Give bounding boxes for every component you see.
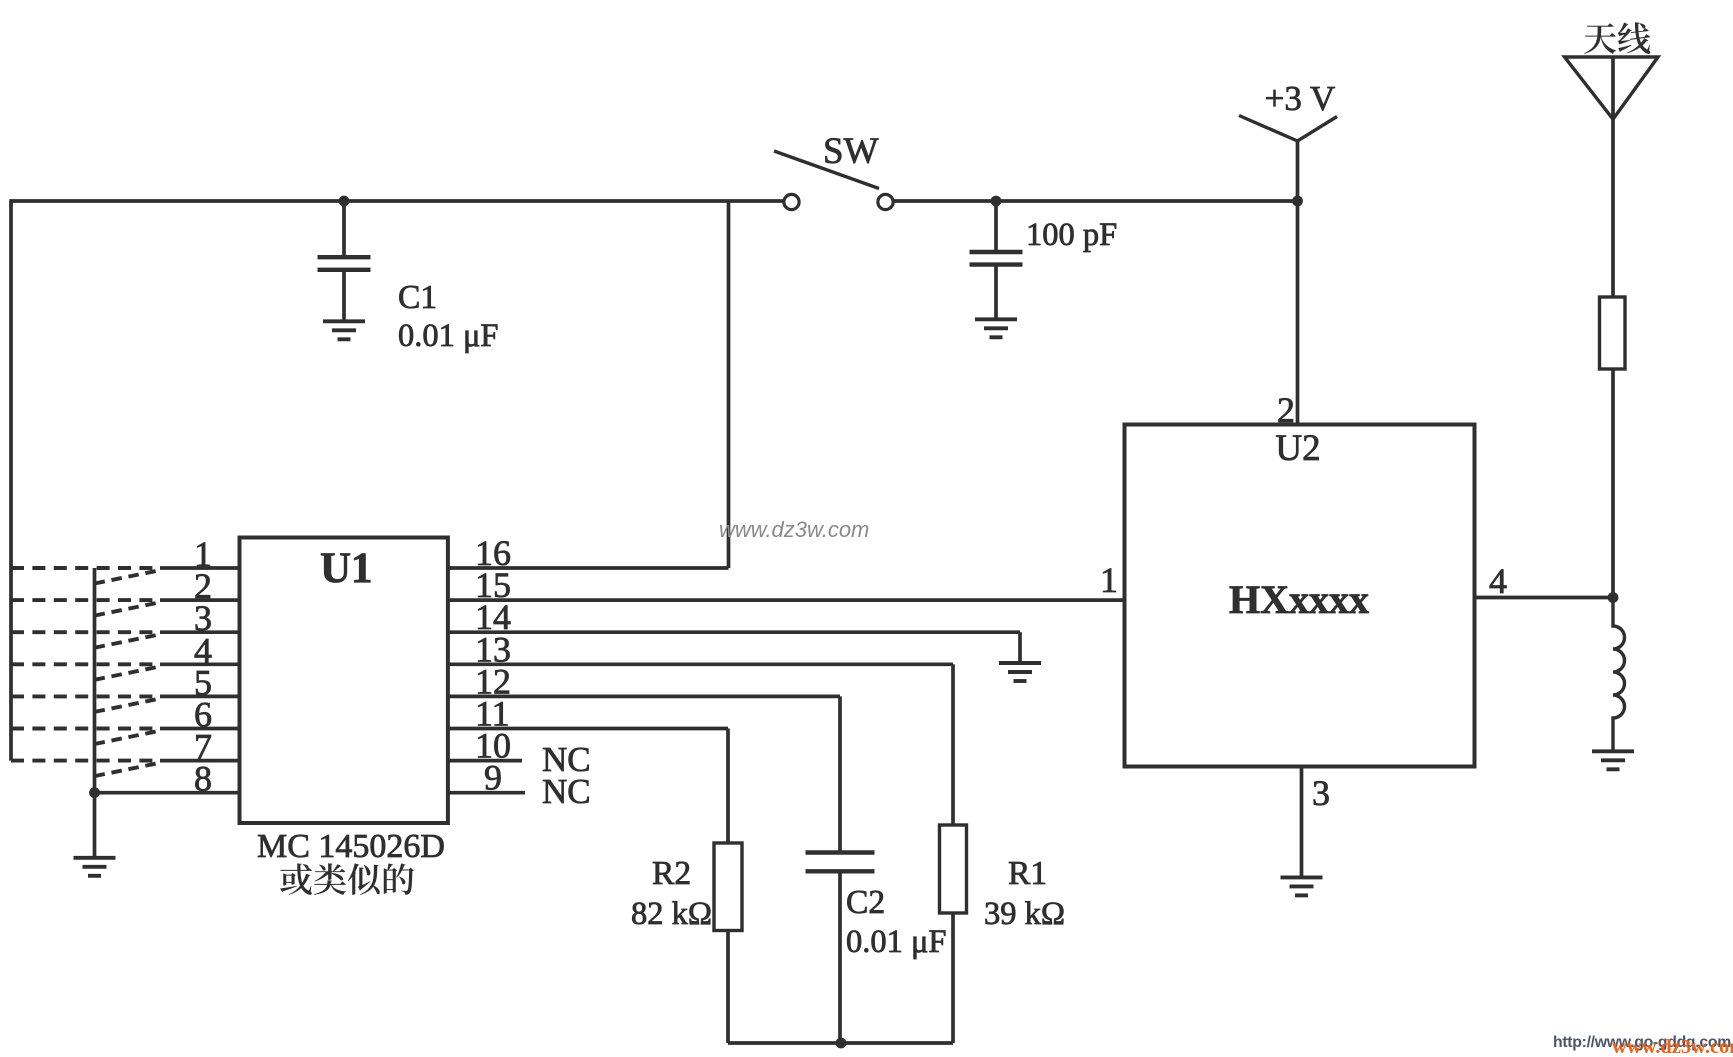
wire: 100pF bottom lead [994, 266, 998, 318]
svg-text:39 kΩ: 39 kΩ [984, 896, 1065, 932]
DIP switch blade for pin 7 (dashed diagonal) [95, 764, 157, 777]
svg-text:9: 9 [484, 758, 502, 798]
wire: top rail left section (VDD bus from left bus to SW) [9, 199, 783, 203]
wire: U2 pin 4 to antenna node [1475, 596, 1614, 600]
wire: R1 bottom lead to rail [951, 913, 955, 1043]
svg-text:MC 145026D: MC 145026D [257, 828, 445, 865]
wire: pin 13 down to R1 [951, 664, 955, 825]
svg-text:4: 4 [1489, 561, 1507, 601]
DIP switch blade for pin 1 (dashed diagonal) [95, 571, 157, 584]
wire: U1 pin 8 lead from ground bus [95, 791, 240, 795]
wire: pin 12 down to C2 [838, 696, 842, 851]
svg-text:C1: C1 [398, 279, 437, 316]
wire: 100pF top lead [994, 201, 998, 251]
power supply +3V symbol [1239, 116, 1337, 142]
label: antenna (Chinese tianxian) [1584, 23, 1616, 54]
wire: U1 pin 10 stub (NC) [448, 759, 522, 763]
wire: U1 pin 15 to U2 pin 1 [448, 598, 1125, 602]
node: junction pin 4 / antenna / inductor [1608, 592, 1619, 603]
svg-text:3: 3 [1312, 773, 1330, 813]
wire: dashed line to DIP switch, pin 5 [11, 694, 157, 698]
wire: +3V down to U2 pin 2 [1296, 141, 1300, 425]
wire: U1 pin 14 horizontal [448, 630, 1020, 634]
wire: U1 pin 13 horizontal [448, 662, 953, 666]
wire: dashed line to DIP switch, pin 3 [11, 630, 157, 634]
inductor (RF choke to ground) [1613, 598, 1625, 750]
svg-text:www.dz3w.com: www.dz3w.com [1612, 1036, 1733, 1057]
wire: U1 pin 7 lead [160, 759, 240, 763]
DIP switch blade for pin 4 (dashed diagonal) [95, 667, 157, 680]
wire: pin 11 down to R2 [726, 729, 730, 844]
ground below 100pF cap [975, 319, 1017, 337]
svg-text:82 kΩ: 82 kΩ [631, 896, 712, 932]
node: junction pin-8 / switch bus [89, 787, 100, 798]
svg-text:C2: C2 [846, 884, 885, 921]
ground at U1 pin 14 [999, 663, 1041, 681]
capacitor C1 0.01uF [318, 257, 371, 270]
svg-text:0.01 μF: 0.01 μF [846, 924, 947, 960]
svg-text:2: 2 [1277, 390, 1295, 430]
ground below C1 [323, 321, 365, 339]
node: junction top rail / C1 [339, 196, 350, 207]
wire: far-left vertical bus [9, 201, 13, 761]
wire: U1 pin 4 lead [160, 662, 240, 666]
resistor R2 82k body [714, 843, 742, 931]
resistor (antenna series, unlabeled) body [1600, 297, 1626, 369]
svg-text:SW: SW [823, 131, 879, 172]
wire: U1 pin 14 down to ground [1018, 632, 1022, 661]
wire: C1 bottom lead [342, 271, 346, 320]
capacitor C2 0.01uF [806, 853, 875, 872]
wire: U1 pin 2 lead [160, 598, 240, 602]
wire: U1 pin 1 lead [160, 566, 240, 570]
wire: DIP-switch common vertical bus [93, 568, 97, 856]
wire: dashed line to DIP switch, pin 2 [11, 598, 157, 602]
node: junction top rail / +3V vertical [1292, 196, 1303, 207]
wire: U1 pin 3 lead [160, 630, 240, 634]
label: U1 part number line 2 (Chinese: or similar) [280, 863, 312, 894]
ground below inductor [1592, 751, 1634, 769]
wire: C2 bottom lead to rail [838, 872, 842, 1043]
svg-text:HXxxxx: HXxxxx [1229, 577, 1369, 622]
wire: dashed line to DIP switch, pin 7 [11, 759, 157, 763]
wire: U1 pin 5 lead [160, 695, 240, 699]
IC U1 body (MC145026D encoder) [240, 538, 448, 824]
node: junction bottom rail / C2 [836, 1038, 847, 1049]
svg-text:U1: U1 [320, 545, 373, 592]
wire: dashed line to DIP switch, pin 1 [11, 566, 157, 570]
node: junction top rail / 100pF cap [991, 196, 1002, 207]
wire: resistor down to pin-4 node [1611, 369, 1615, 598]
wire: dashed line to DIP switch, pin 4 [11, 662, 157, 666]
switch SW (SPST, open) [774, 151, 893, 210]
svg-text:NC: NC [542, 772, 591, 811]
wire: dashed line to DIP switch, pin 6 [11, 727, 157, 731]
svg-text:+3 V: +3 V [1265, 79, 1336, 118]
wire: antenna down to matching resistor [1611, 57, 1615, 297]
resistor R1 39k body [940, 825, 967, 913]
wire: bottom rail joining R2, C2, R1 [728, 1041, 953, 1045]
ground below switch bus [74, 858, 116, 876]
svg-text:www.dz3w.com: www.dz3w.com [719, 517, 869, 542]
DIP switch blade for pin 3 (dashed diagonal) [95, 635, 157, 648]
wire: U2 pin 3 down to ground [1300, 767, 1304, 876]
svg-text:R2: R2 [652, 855, 691, 892]
DIP switch blade for pin 2 (dashed diagonal) [95, 603, 157, 616]
DIP switch blade for pin 5 (dashed diagonal) [95, 699, 157, 712]
DIP switch blade for pin 6 (dashed diagonal) [95, 732, 157, 745]
svg-text:1: 1 [1100, 560, 1118, 600]
IC U2 body (HXxxxx transmitter) [1125, 425, 1475, 767]
wire: top rail right section (SW to +3V node) [893, 199, 1298, 203]
svg-text:100 pF: 100 pF [1026, 217, 1117, 253]
wire: U1 pin 12 horizontal [448, 695, 840, 699]
antenna symbol (inverted triangle) [1565, 57, 1659, 119]
capacitor 100 pF [970, 252, 1023, 265]
wire: U1 pin 16 to SW vertical [448, 566, 729, 570]
svg-text:R1: R1 [1008, 855, 1047, 892]
wire: U1 pin 9 stub (NC) [448, 791, 525, 795]
wire: U1 pin 11 horizontal [448, 727, 728, 731]
svg-text:U2: U2 [1275, 428, 1320, 469]
wire: R2 bottom lead to rail [726, 931, 730, 1044]
wire: C1 top lead [342, 201, 346, 257]
wire: U1 pin 6 lead [160, 727, 240, 731]
wire: vertical from top rail down to U1 pin 16 [727, 201, 731, 568]
ground at U2 pin 3 [1281, 877, 1323, 895]
svg-text:8: 8 [194, 759, 212, 799]
svg-text:0.01 μF: 0.01 μF [398, 318, 499, 354]
